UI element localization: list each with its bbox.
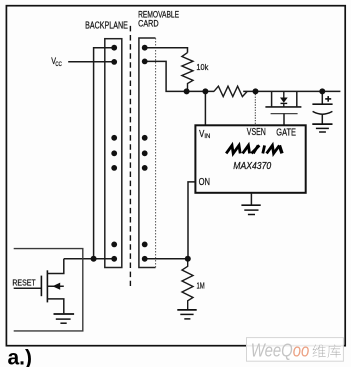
svg-text:1M: 1M bbox=[197, 281, 205, 291]
svg-text:MAX4370: MAX4370 bbox=[233, 160, 271, 172]
svg-text:IN: IN bbox=[204, 133, 210, 140]
svg-text:CC: CC bbox=[55, 62, 62, 68]
svg-text:WeeQoo: WeeQoo bbox=[251, 341, 309, 361]
svg-text:10k: 10k bbox=[196, 62, 209, 72]
svg-text:BACKPLANE: BACKPLANE bbox=[85, 20, 128, 31]
svg-text:ON: ON bbox=[199, 176, 211, 188]
svg-text:GATE: GATE bbox=[276, 127, 296, 138]
svg-text:a.): a.) bbox=[8, 346, 33, 367]
svg-text:CARD: CARD bbox=[138, 19, 159, 30]
svg-text:VSEN: VSEN bbox=[247, 127, 266, 138]
svg-text:RESET: RESET bbox=[12, 277, 35, 287]
